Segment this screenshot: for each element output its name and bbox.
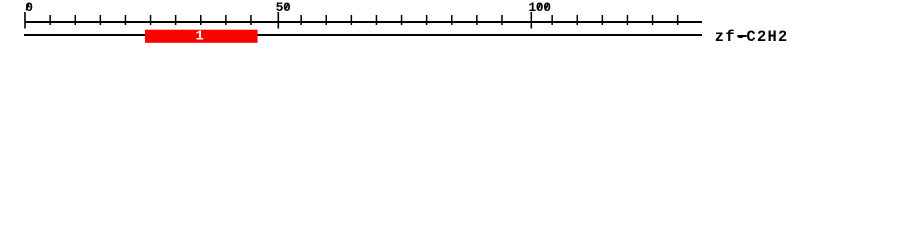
svg-text:zf-C2H2: zf-C2H2	[715, 28, 789, 46]
svg-text:1: 1	[196, 30, 204, 45]
svg-text:50: 50	[276, 0, 291, 15]
svg-text:100: 100	[528, 0, 551, 15]
svg-text:0: 0	[25, 0, 33, 15]
